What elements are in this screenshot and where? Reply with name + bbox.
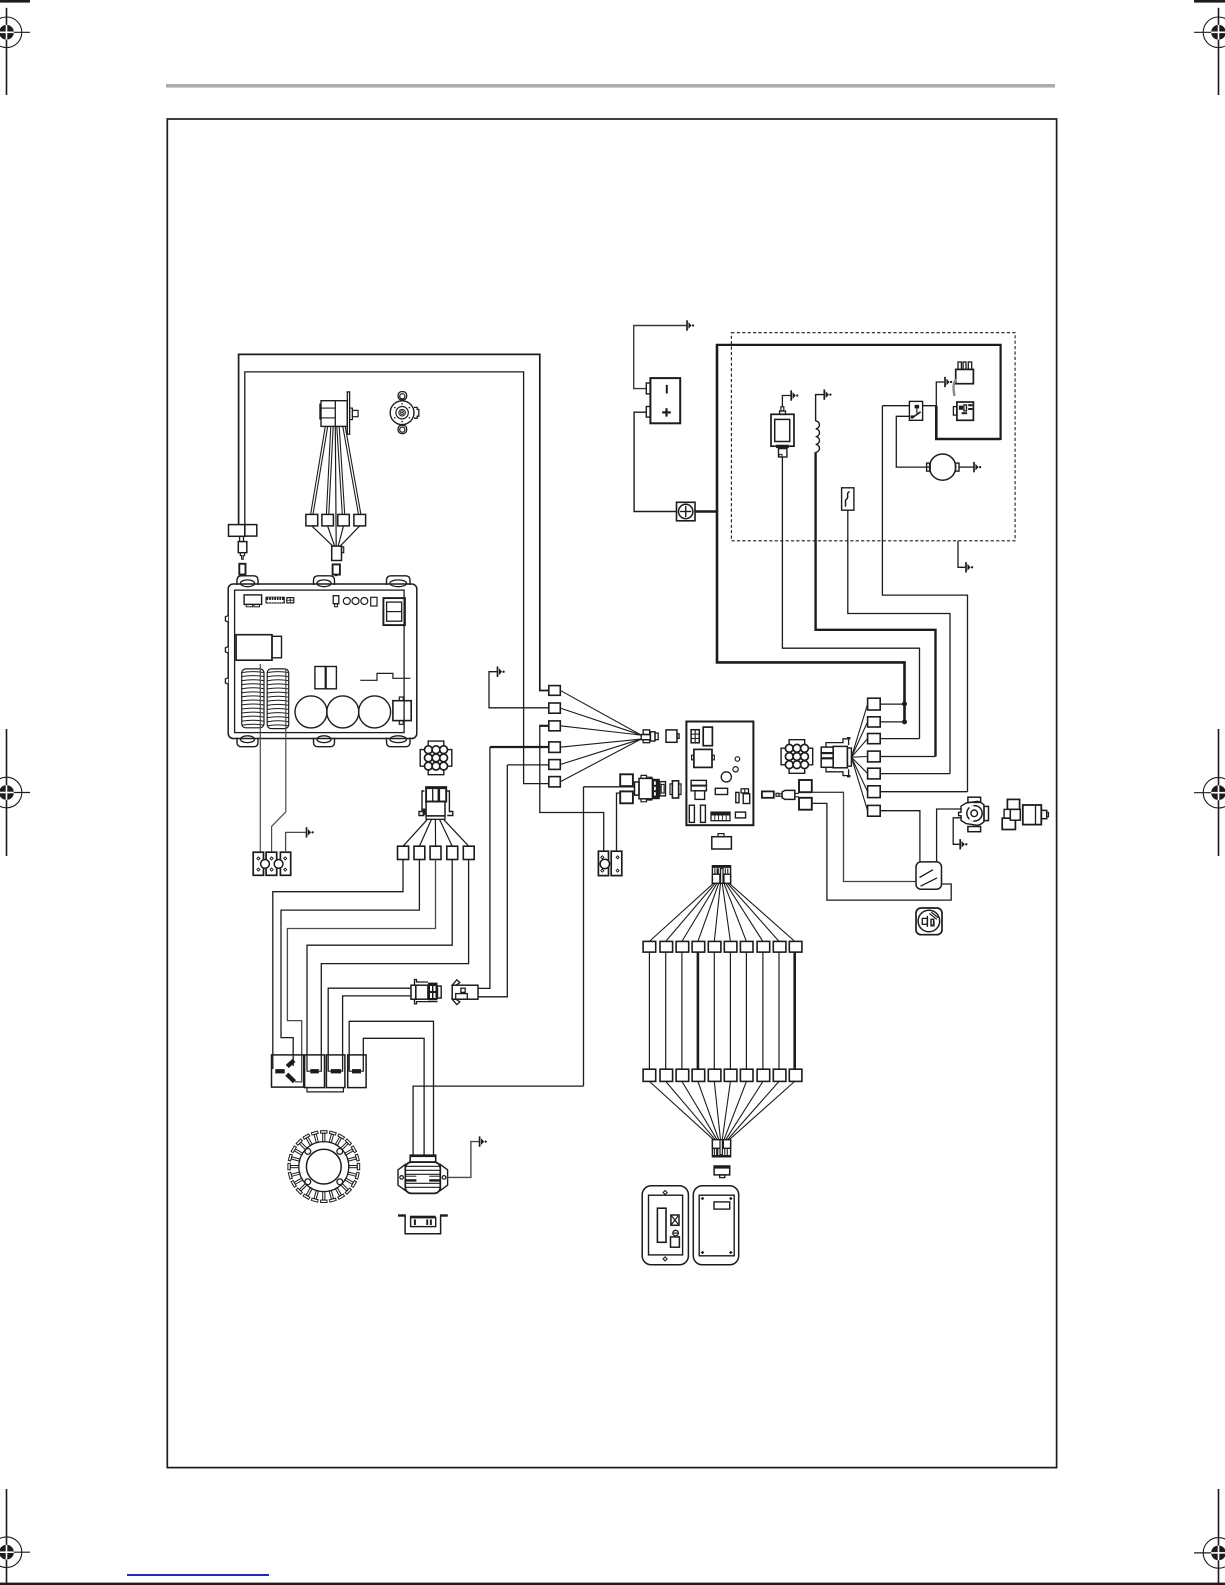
ground key switch (945, 377, 952, 387)
ignition coil body (321, 401, 347, 427)
plug coil lead (332, 546, 342, 560)
wire sq4 riser down (479, 747, 490, 988)
connector harness square top 5 (708, 941, 721, 952)
wire harness run 8 (762, 952, 764, 1069)
connector square R7 (868, 805, 881, 816)
battery (650, 378, 680, 423)
wire key switch to ground riser (923, 382, 945, 406)
motor power trim (968, 797, 981, 802)
terminal pulser (239, 564, 245, 575)
wire upper right square to trim sender (812, 792, 916, 881)
component CDI capacitor 2 (327, 696, 359, 728)
wire inner loop pulser (245, 372, 549, 784)
panel remote control (642, 1186, 688, 1265)
connector harness square top 3 (676, 941, 689, 952)
connector honeycomb right (781, 740, 813, 774)
connector harness square top 6 (724, 941, 737, 952)
connector engine harness T5 (426, 787, 446, 801)
component PCB tall rect (703, 727, 712, 746)
ground rectifier (480, 1136, 487, 1146)
wire bullet left pin1 (328, 988, 411, 1069)
junction dot A (903, 702, 907, 706)
connector square L1 (549, 686, 561, 696)
registration mark bottom-left (0, 1489, 30, 1585)
component PCB relay box (694, 749, 712, 767)
connector spark plug cap 2 (322, 514, 334, 526)
connector square R2 (868, 717, 881, 727)
wire sq7 to trim sender (880, 811, 920, 862)
sender trim (916, 862, 942, 889)
connector square R1 (868, 698, 881, 710)
wire battery negative to ground (634, 326, 687, 389)
component PCB pot (691, 780, 706, 785)
wire choke down to sq4 (816, 452, 936, 756)
connector spark plug cap 4 (354, 514, 366, 526)
plug bullet left (411, 985, 416, 999)
component CDI right module (393, 701, 411, 721)
rectifier regulator (410, 1155, 436, 1162)
wire cap2 to plug (328, 526, 335, 546)
ground engine block (498, 667, 505, 677)
wire dashed box exit to ground (958, 541, 965, 568)
wire bundle col5 (321, 860, 468, 1070)
plug pulser tip (240, 553, 244, 560)
wire main feed bottom-right run (936, 406, 1000, 439)
registration mark right-middle (1194, 729, 1225, 856)
component PCB caps (735, 757, 740, 762)
battery plus mark (662, 411, 671, 413)
component PCB small bar (715, 788, 727, 794)
ignition coil connector tab (350, 408, 353, 420)
stator lighting coil (288, 1131, 360, 1203)
connector honeycomb left (420, 741, 452, 775)
fuse holder main (677, 502, 696, 521)
horn buzzer (916, 908, 942, 935)
connector harness square bottom 6 (724, 1069, 737, 1081)
wire fan harness top (649, 883, 713, 941)
motor starter (930, 454, 956, 480)
connector row square 5 (463, 846, 474, 859)
solenoid starter (771, 414, 794, 446)
wire HT lead 3 (337, 426, 343, 514)
rectifier left ear (398, 1165, 405, 1191)
wire harness run 1 (648, 952, 650, 1069)
connector fuse holder (957, 402, 974, 420)
trim bar top-left (0, 0, 30, 3)
connector pulser coil right half (245, 525, 257, 537)
wire CDI ground lead 1 (259, 664, 261, 852)
wire trim motor to sender (937, 809, 962, 862)
connector square R5 (868, 768, 881, 779)
wire sq5 feed (507, 764, 549, 766)
wire harness run 4 (697, 952, 700, 1069)
connector square L5 (549, 760, 561, 770)
ground starter motor (974, 462, 981, 472)
wire bundle col4 (307, 860, 452, 1070)
bottom trim line (0, 1583, 1225, 1585)
connector square R6 (868, 786, 881, 798)
rectifier right ear (440, 1165, 447, 1191)
dashed box remote electrics (731, 333, 1015, 541)
registration mark bottom-right (1194, 1489, 1225, 1585)
wire CDI ground lead 2 (272, 669, 286, 852)
connector strip box1 Y-junction (272, 1055, 304, 1087)
connector multipin main harness (821, 747, 833, 767)
connector harness square top 4 (692, 941, 705, 952)
wire sq1 to junction dot (880, 703, 904, 705)
connector harness square top 9 (773, 941, 786, 952)
battery minus mark (666, 385, 668, 394)
wire lower right square loop (812, 803, 951, 900)
component CDI top-right module (383, 598, 405, 625)
wire main feed top run (716, 345, 1001, 440)
wire plug to squares channel (795, 792, 799, 794)
wire bundle col3 (287, 860, 435, 1082)
wire harness run 7 (745, 952, 747, 1069)
connector row square 4 (447, 846, 458, 859)
wire bullet left pin2 (343, 996, 411, 1070)
ground harness shield (966, 562, 973, 572)
connector stack squares right upper (799, 780, 812, 792)
registration mark left-middle (0, 729, 30, 856)
switch trim panel squares (1007, 799, 1019, 809)
connector harness square top 2 (660, 941, 673, 952)
plug pulser lead (238, 542, 247, 553)
connector square L2 (549, 703, 561, 713)
sensor crank position (390, 392, 419, 434)
wire harness run 10 (793, 952, 796, 1069)
relay under PCB (712, 837, 732, 849)
connector harness bottom (712, 1140, 730, 1157)
connector stack square lower (620, 791, 633, 803)
connector row square 3 (430, 846, 441, 859)
relay fuse block (956, 369, 974, 383)
wire sq5 riser down (479, 765, 508, 997)
wire sq4 feed thick (490, 746, 549, 748)
connector spark plug cap 1 (306, 514, 318, 526)
connector row square 1 (398, 846, 409, 859)
motor trim cylinder (1023, 805, 1042, 825)
wire main feed riser (716, 344, 719, 512)
wire rectifier lead C (413, 1086, 583, 1155)
connector strip box3 (326, 1055, 345, 1088)
connector harness square top 7 (740, 941, 753, 952)
terminal coil (333, 564, 340, 574)
wire cap1 to plug (312, 526, 333, 546)
wire solenoid down to sq3 (782, 457, 919, 739)
wire key switch down to sq6 (882, 406, 967, 792)
connector harness square top 8 (757, 941, 770, 952)
ground CDI plates (307, 827, 314, 837)
switch key main (909, 401, 922, 420)
wire main feed from fuse (695, 510, 717, 513)
connector square R4 (868, 751, 881, 762)
connector harness square bottom 5 (708, 1069, 721, 1081)
connector strip box4 (348, 1055, 366, 1088)
component CDI winding 1 (242, 669, 264, 728)
component PCB dip (711, 812, 730, 821)
plug harness junction A (643, 730, 650, 735)
bracket under strip (307, 1088, 343, 1092)
connector square R3 (868, 734, 881, 744)
wire starter motor to ground (959, 466, 973, 468)
component CDI caps small (343, 598, 350, 605)
component CDI dip strip (266, 597, 284, 603)
component CDI winding 2 (267, 669, 289, 729)
wire rectifier lead A (349, 1021, 433, 1155)
wire harness run 2 (665, 952, 667, 1069)
connector square L3 (549, 721, 561, 731)
blue footer line (127, 1574, 269, 1576)
connector harness square bottom 9 (773, 1069, 786, 1081)
unit CDI main case (225, 576, 416, 747)
connector strip box2 (305, 1055, 325, 1088)
wire bundle col1 (273, 860, 403, 1070)
registration mark top-right (1194, 8, 1225, 95)
diagram border frame (167, 119, 1056, 1468)
connector harness square top 1 (643, 941, 656, 952)
wire bundle col2 (281, 860, 419, 1067)
connector harness square bottom 1 (643, 1069, 656, 1081)
wire key switch feed (882, 405, 909, 407)
wire HT lead 2 (326, 426, 330, 514)
ground trim motor (960, 839, 967, 849)
component CDI capacitor 3 (359, 696, 391, 728)
component CDI capacitor 1 (295, 696, 327, 728)
junction dot B (903, 720, 907, 724)
plug bullet right (452, 985, 478, 999)
connector inline mate (672, 781, 678, 798)
component PCB bottom right rect (735, 812, 745, 818)
lever fuse puller (954, 380, 957, 397)
wire outer loop pulser (239, 354, 549, 690)
component PCB right parts (736, 792, 739, 802)
wire solenoid to ground (782, 396, 790, 407)
ignition coil mounting plate (347, 392, 349, 434)
wire battery positive to fuse (634, 412, 676, 511)
connector harness square bottom 8 (757, 1069, 770, 1081)
connector harness square bottom 7 (740, 1069, 753, 1081)
connector square L6 (549, 777, 561, 787)
wire lower stack square to plate pair (617, 793, 621, 851)
component CDI left module (236, 635, 272, 661)
connector square L4 (549, 742, 561, 753)
connector spark plug cap 3 (338, 514, 350, 526)
wire plate3 to ground (286, 832, 306, 852)
connector harness square bottom 10 (789, 1069, 802, 1081)
wire fan harness bottom (649, 1081, 713, 1139)
registration mark top-left (0, 8, 30, 95)
connector harness square bottom 2 (660, 1069, 673, 1081)
trace CDI step (360, 673, 410, 680)
wire key switch to starter motor (896, 416, 929, 467)
relay fuse block prongs (958, 362, 961, 369)
wire harness run 9 (778, 952, 780, 1069)
wire rectifier lead B (363, 1038, 424, 1155)
connector stack square upper (620, 774, 633, 786)
unit control PCB (686, 722, 753, 826)
wire harness run 5 (713, 952, 715, 1069)
wire cap3 to plug (338, 526, 343, 546)
wire rectifier to ground (446, 1142, 479, 1178)
wire choke coil to ground (816, 395, 824, 421)
ground choke coil (824, 389, 831, 399)
wire HT lead 1 (311, 426, 326, 514)
component CDI transistor (333, 596, 339, 604)
connector ground plates CDI (253, 852, 263, 875)
wire sq4 stub (880, 756, 935, 758)
wire fan multipin to column (851, 704, 867, 757)
connector harness top (712, 866, 730, 884)
connector row square 2 (414, 846, 425, 859)
component CDI small grid (287, 598, 294, 603)
wire stack squares feed (584, 786, 635, 788)
wire HT center lead (334, 426, 337, 546)
connector harness square top 10 (789, 941, 802, 952)
wire fan T5 to row squares (403, 819, 427, 846)
wire cap4 to plug (340, 526, 360, 546)
wire main feed down to junctions (717, 511, 905, 722)
ground solenoid (791, 390, 798, 400)
connector harness square bottom 4 (692, 1069, 705, 1081)
wire sq6 stub (880, 791, 967, 793)
component CDI small rect (371, 597, 377, 606)
wire sq2 to ground riser (489, 672, 549, 708)
plug harness junction B (666, 730, 677, 742)
connector stack squares right lower (799, 798, 812, 810)
terminal tiny rect (762, 791, 774, 797)
wire trim motor to ground (953, 818, 962, 845)
wire sq5 stub (880, 773, 950, 775)
panel gauge blank (693, 1186, 738, 1265)
wire harness run 6 (729, 952, 731, 1069)
wire sq2 to junction dot (880, 721, 904, 723)
fuse sender (842, 488, 854, 510)
terminal harness end (714, 1166, 730, 1175)
wire fuse sender down to sq5 (848, 510, 950, 773)
component CDI top-left box (244, 595, 262, 605)
wire riser to rectifier junction (583, 787, 585, 1086)
wire sq3 to ground plate pair (539, 725, 549, 727)
wire fan L-squares to plug (560, 690, 641, 735)
wire sq3 stub (880, 738, 919, 740)
plug prong small (776, 793, 779, 796)
wire harness run 3 (681, 952, 683, 1069)
connector ground plate pair (598, 851, 608, 875)
inductor choke coil (816, 421, 820, 452)
component CDI mid rects (315, 667, 325, 689)
plug inline main (635, 782, 640, 795)
gray header rule (166, 84, 1055, 88)
component PCB grid block (691, 730, 699, 743)
connector pulser coil left half (229, 525, 245, 537)
wire pulser plug leads (239, 536, 241, 541)
anode trim tab (398, 1214, 406, 1216)
component PCB bottom bars (689, 805, 694, 822)
connector harness square bottom 3 (676, 1069, 689, 1081)
ground battery negative (687, 320, 694, 330)
wire HT lead 4 (343, 426, 359, 514)
trim bar top-right (1194, 0, 1225, 3)
